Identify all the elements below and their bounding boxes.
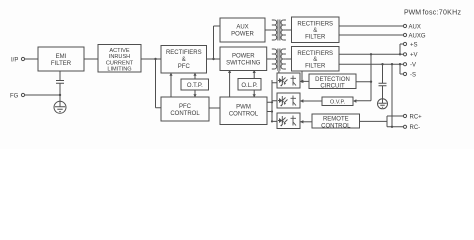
- svg-text:PFC: PFC: [179, 104, 192, 110]
- svg-text:&: &: [313, 28, 317, 34]
- svg-text:fosc:70KHz: fosc:70KHz: [423, 10, 462, 17]
- svg-text:CONTROL: CONTROL: [170, 111, 200, 117]
- svg-text:DETECTION: DETECTION: [315, 77, 350, 83]
- svg-text:POWER: POWER: [232, 54, 255, 60]
- svg-text:EMI: EMI: [56, 54, 67, 60]
- svg-text:POWER: POWER: [231, 32, 254, 38]
- svg-text:FILTER: FILTER: [51, 61, 72, 67]
- svg-text:-V: -V: [410, 63, 416, 69]
- svg-text:LIMITING: LIMITING: [107, 66, 131, 72]
- svg-text:O.T.P.: O.T.P.: [187, 83, 203, 89]
- svg-text:&: &: [182, 57, 186, 63]
- svg-text:I/P: I/P: [11, 57, 18, 63]
- svg-text:PWM: PWM: [404, 10, 421, 17]
- svg-text:RECTIFIERS: RECTIFIERS: [166, 50, 202, 56]
- svg-text:SWITCHING: SWITCHING: [226, 61, 261, 67]
- svg-text:INRUSH: INRUSH: [109, 54, 130, 60]
- svg-text:RC+: RC+: [410, 114, 423, 120]
- svg-text:FG: FG: [10, 93, 19, 99]
- svg-text:O.L.P.: O.L.P.: [241, 83, 258, 89]
- svg-text:RC-: RC-: [410, 125, 421, 131]
- svg-text:AUX: AUX: [409, 24, 421, 30]
- svg-text:FILTER: FILTER: [305, 35, 326, 41]
- svg-text:CIRCUIT: CIRCUIT: [320, 84, 345, 90]
- svg-text:-S: -S: [410, 72, 416, 78]
- svg-text:O.V.P.: O.V.P.: [330, 100, 346, 106]
- svg-text:PFC: PFC: [178, 64, 191, 70]
- svg-text:AUX: AUX: [236, 25, 248, 31]
- svg-text:FILTER: FILTER: [305, 64, 326, 70]
- svg-text:CONTROL: CONTROL: [229, 112, 259, 118]
- svg-text:CONTROL: CONTROL: [321, 123, 351, 129]
- svg-text:RECTIFIERS: RECTIFIERS: [297, 22, 333, 28]
- svg-text:AUXG: AUXG: [409, 33, 426, 39]
- svg-text:&: &: [313, 57, 317, 63]
- svg-text:REMOTE: REMOTE: [323, 117, 349, 123]
- svg-text:+V: +V: [410, 53, 418, 59]
- svg-text:+S: +S: [410, 42, 418, 48]
- svg-text:PWM: PWM: [236, 105, 251, 111]
